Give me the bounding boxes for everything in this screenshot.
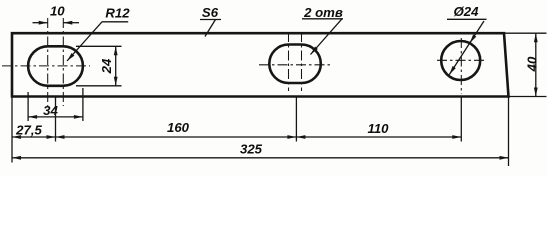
round hole (right, dia 24) [441, 41, 480, 80]
dimension 160 [56, 120, 297, 139]
svg-text:110: 110 [367, 121, 389, 136]
center line: middle slot right arc vertical [301, 32, 303, 91]
extension line: left slot center down [55, 97, 57, 142]
slot hole 1 (left obround, R12) [28, 46, 83, 86]
svg-text:325: 325 [240, 141, 263, 156]
svg-text:Ø24: Ø24 [454, 4, 480, 19]
leader "2 отв" (2 holes) [302, 5, 343, 55]
center line: left slot left arc vertical [47, 18, 49, 106]
center line: middle slot horizontal [259, 64, 333, 66]
slot hole 2 (middle obround) [269, 45, 321, 84]
dimension 110 [296, 121, 461, 139]
dimension 10 (slot arc spacing) [33, 3, 80, 24]
svg-text:40: 40 [525, 56, 540, 72]
leader R12 (slot radius) [67, 6, 130, 61]
center line: circle vertical [460, 38, 462, 94]
center line: middle slot left arc vertical [288, 32, 290, 91]
svg-text:2 отв: 2 отв [303, 5, 343, 20]
center line: left slot right arc vertical [62, 18, 64, 106]
dimension 40 (plate width) [504, 33, 547, 96]
svg-text:S6: S6 [202, 5, 219, 20]
svg-text:160: 160 [167, 120, 190, 135]
extension line: plate right edge down [508, 97, 510, 167]
dimension 34 (slot length) [28, 88, 83, 121]
extension line: middle slot center down [295, 97, 297, 142]
leader Ø24 (hole diameter) [447, 4, 487, 75]
center line: circle horizontal [437, 59, 487, 61]
extension line: circle center down [460, 97, 462, 142]
svg-text:34: 34 [43, 103, 58, 118]
svg-text:R12: R12 [105, 6, 130, 21]
extension line: plate left edge down [11, 97, 13, 163]
center line: left slot horizontal [2, 65, 90, 67]
dimension 24 (slot height) [76, 46, 122, 86]
plate outline [12, 33, 509, 96]
dimension 325 [12, 141, 509, 159]
svg-text:27,5: 27,5 [15, 122, 42, 137]
svg-text:24: 24 [99, 58, 114, 74]
dimension 27,5 [12, 122, 56, 139]
svg-text:10: 10 [50, 3, 65, 18]
leader S6 (sheet thickness) [200, 5, 221, 36]
